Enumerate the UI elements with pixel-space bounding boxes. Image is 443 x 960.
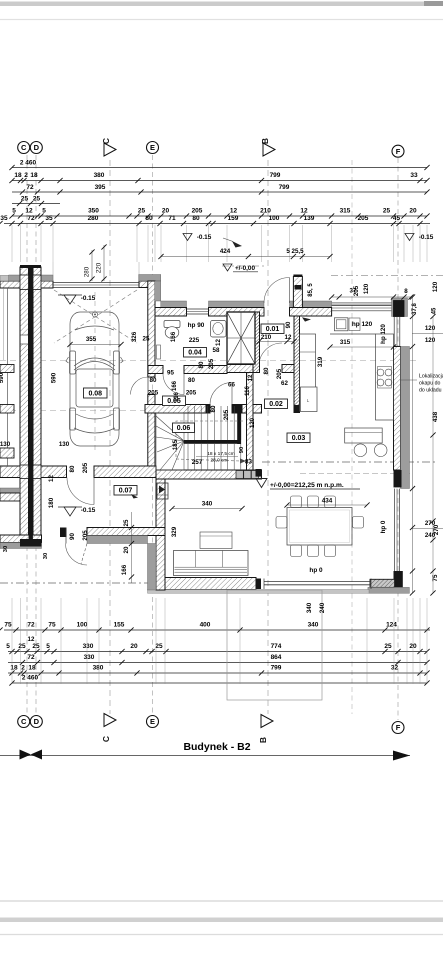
svg-text:774: 774 [271, 643, 282, 650]
page separator top [0, 2, 443, 7]
party wall black core [29, 267, 33, 540]
svg-text:80: 80 [150, 377, 157, 384]
stair wall end block [256, 469, 262, 477]
svg-text:95: 95 [167, 370, 174, 377]
svg-text:120: 120 [363, 283, 370, 294]
svg-text:2 460: 2 460 [22, 675, 39, 682]
level marker -0.15 top right [405, 234, 414, 241]
svg-text:25: 25 [18, 643, 26, 650]
svg-text:45: 45 [432, 307, 438, 314]
svg-text:5: 5 [6, 643, 10, 650]
level marker -0.15 top middle [183, 234, 192, 241]
svg-text:B: B [260, 138, 270, 144]
svg-text:159: 159 [228, 215, 239, 222]
right wall window upper hp120 [393, 317, 395, 347]
svg-text:E: E [150, 717, 155, 726]
garage interior dimensions [70, 344, 121, 346]
level marker -0.15 hall [64, 507, 76, 516]
svg-text:5: 5 [12, 208, 16, 215]
svg-text:180: 180 [48, 497, 55, 508]
svg-text:30: 30 [3, 546, 9, 552]
svg-text:185: 185 [172, 439, 179, 450]
dining chair left [276, 517, 287, 529]
garage bottom wall [0, 466, 67, 478]
grid bubble C bottom [18, 716, 30, 728]
svg-text:25: 25 [143, 336, 150, 343]
stair door jambs [206, 405, 211, 414]
svg-text:434: 434 [322, 498, 333, 505]
stairwell bottom wall [156, 470, 262, 479]
dining chair right [353, 517, 364, 529]
svg-text:205: 205 [276, 368, 283, 379]
svg-text:205: 205 [208, 358, 215, 369]
dimension entry recess 424 and 5-25-5 [161, 256, 330, 258]
svg-text:380: 380 [93, 665, 104, 672]
room label 0.01 [261, 324, 284, 334]
svg-text:5 25,5: 5 25,5 [286, 248, 304, 255]
entrance door arc [66, 544, 88, 566]
svg-text:58: 58 [213, 347, 220, 354]
svg-text:799: 799 [271, 665, 282, 672]
svg-text:C: C [21, 143, 27, 152]
living room left wall [156, 470, 165, 590]
svg-text:100: 100 [269, 215, 280, 222]
svg-text:799: 799 [279, 184, 290, 191]
toilet [164, 321, 180, 328]
svg-text:83: 83 [245, 459, 252, 466]
bar stools [354, 444, 367, 457]
svg-text:25: 25 [32, 643, 40, 650]
svg-text:75: 75 [48, 622, 56, 629]
stair railing [184, 440, 241, 444]
garage drain symbol [92, 312, 97, 317]
svg-text:18: 18 [14, 172, 22, 179]
svg-text:45: 45 [393, 215, 401, 222]
svg-text:28,0 cm: 28,0 cm [210, 458, 227, 464]
garage door swing dashed X [54, 290, 137, 343]
svg-text:395: 395 [95, 184, 106, 191]
svg-text:18: 18 [28, 665, 36, 672]
kitchen top window [332, 302, 394, 305]
svg-text:35: 35 [0, 215, 8, 222]
svg-text:100: 100 [77, 622, 88, 629]
svg-text:120: 120 [250, 417, 256, 428]
svg-text:hp 120: hp 120 [380, 324, 387, 344]
svg-text:329: 329 [171, 526, 178, 537]
grid bubble D bottom [30, 716, 42, 728]
roof overhang dashed line right [262, 461, 437, 463]
svg-text:0.04: 0.04 [188, 349, 202, 356]
level marker -0.15 garage [64, 295, 76, 304]
svg-text:319: 319 [317, 356, 324, 367]
car in garage [66, 312, 123, 446]
grid bubble C top [18, 142, 30, 154]
svg-text:20: 20 [123, 546, 130, 553]
svg-text:380: 380 [94, 172, 105, 179]
section flag B top [263, 143, 275, 156]
svg-text:Budynek - B2: Budynek - B2 [183, 741, 250, 753]
svg-text:okapu do: okapu do [419, 381, 440, 387]
insulation right of garage wall at entry recess [155, 281, 161, 301]
garage centre dashed line [94, 292, 96, 452]
svg-text:20: 20 [409, 208, 417, 215]
svg-text:B: B [258, 737, 268, 743]
masonry blocks on stair wall [236, 471, 243, 479]
svg-text:205: 205 [192, 208, 203, 215]
page separator bottom [0, 900, 443, 902]
stairs 0.06 [156, 413, 184, 470]
svg-text:hp 90: hp 90 [188, 322, 205, 329]
room label 0.05 [163, 396, 186, 406]
svg-text:20: 20 [409, 643, 417, 650]
svg-text:257: 257 [192, 459, 203, 466]
top dimension row 18-2-18-380-799-33 [12, 180, 427, 182]
svg-text:C: C [101, 736, 111, 742]
corner pillar top right [392, 298, 408, 317]
svg-text:120: 120 [432, 281, 439, 292]
svg-text:12: 12 [230, 208, 238, 215]
stairwell top wall [145, 405, 210, 414]
svg-text:280: 280 [84, 266, 91, 277]
svg-text:Lokalizacja: Lokalizacja [419, 374, 443, 380]
porch insulation along living left wall [148, 544, 157, 591]
dining table [287, 508, 352, 546]
svg-text:340: 340 [308, 622, 319, 629]
bottom right corner block [394, 571, 403, 587]
entrance door jamb [60, 528, 67, 538]
svg-text:71: 71 [168, 215, 176, 222]
washbasin [211, 321, 227, 338]
party wall columns over crossings [20, 275, 29, 290]
room 0.01 south wall stub [282, 365, 294, 373]
svg-text:F: F [396, 147, 401, 156]
kitchen tall cabinets and fridge [300, 334, 316, 411]
grid axis D [35, 155, 37, 714]
svg-text:864: 864 [271, 654, 282, 661]
bathroom bottom wall [148, 366, 163, 374]
top dimension row 2460 [12, 167, 427, 169]
garage top wall insulation [9, 275, 53, 281]
svg-text:270: 270 [433, 524, 440, 535]
svg-text:D: D [34, 143, 40, 152]
svg-text:12: 12 [248, 374, 254, 381]
svg-text:+/-0,00: +/-0,00 [235, 265, 256, 272]
garage door [53, 282, 139, 284]
svg-text:hp 0: hp 0 [309, 567, 323, 574]
svg-text:210: 210 [261, 334, 272, 341]
door garage to hall 0.07 [67, 478, 94, 505]
svg-text:25: 25 [155, 643, 163, 650]
svg-text:18: 18 [30, 172, 38, 179]
svg-text:124: 124 [386, 622, 397, 629]
svg-text:33: 33 [410, 172, 418, 179]
door to room 0.01 [259, 343, 282, 366]
svg-text:32: 32 [391, 665, 399, 672]
svg-text:205: 205 [358, 215, 369, 222]
extension lines bottom [11, 598, 13, 684]
grid axis E [152, 155, 154, 714]
level marker +/-0.00 entry [223, 264, 232, 271]
section flag B bottom [261, 715, 273, 728]
left unit entrance wall [0, 535, 42, 543]
wall between rooms 0.01-0.02 and living room [294, 316, 300, 413]
bottom dimension row 75-72-75-100-155-400-340-124 [4, 629, 430, 631]
svg-text:hp 120: hp 120 [352, 321, 373, 328]
door in top wall to garden [263, 308, 265, 317]
svg-text:210: 210 [260, 208, 271, 215]
svg-text:80: 80 [192, 215, 200, 222]
svg-text:116: 116 [174, 392, 180, 402]
party wall bottom cap [20, 539, 42, 547]
svg-text:225: 225 [189, 337, 200, 344]
entrance wall [87, 528, 165, 536]
dining chairs top row [291, 496, 302, 508]
svg-text:-0.15: -0.15 [197, 234, 212, 241]
svg-text:-0.15: -0.15 [81, 507, 96, 514]
ventilation shaft with cross [227, 312, 255, 364]
svg-text:35: 35 [45, 215, 53, 222]
svg-text:90: 90 [69, 533, 76, 540]
svg-text:799: 799 [270, 172, 281, 179]
exterior wall stub above top wall [293, 277, 302, 308]
svg-text:116: 116 [245, 386, 251, 396]
right wall window lower hp0 [393, 489, 395, 571]
svg-text:340: 340 [202, 501, 213, 508]
svg-text:72: 72 [27, 654, 35, 661]
grid axis helper [351, 160, 353, 714]
bottom dimension row 18-2-18-380-799-32 [8, 672, 427, 674]
svg-text:80: 80 [263, 367, 270, 374]
svg-text:80: 80 [69, 465, 76, 472]
room label 0.02 [265, 399, 288, 409]
svg-text:240: 240 [319, 602, 326, 613]
title underline with arrows [0, 755, 410, 757]
svg-text:280: 280 [88, 215, 99, 222]
dining chairs bottom row [291, 545, 302, 557]
svg-text:400: 400 [200, 622, 211, 629]
svg-text:25: 25 [21, 196, 29, 203]
level marker +/-0.00 = 212.25 living room [256, 479, 267, 488]
party wall niche [21, 335, 28, 344]
svg-text:205: 205 [353, 285, 360, 296]
svg-text:12: 12 [285, 334, 292, 341]
bathroom window hp90 [187, 308, 209, 310]
bottom wall insulation strip [148, 590, 370, 594]
right wall black block [394, 470, 402, 487]
bottom dimension row 2460 [12, 682, 427, 684]
section line B [267, 160, 269, 714]
svg-text:37,8: 37,8 [412, 303, 418, 315]
section line C [109, 160, 111, 714]
top dimension row 25-25 [12, 203, 60, 205]
bottom dimension row 5-25-25-5-330-20-25-774-25-20 [8, 651, 427, 653]
svg-text:130: 130 [59, 441, 70, 448]
extension lines top [11, 225, 13, 262]
grid bubble E bottom [147, 716, 159, 728]
svg-text:72: 72 [26, 184, 34, 191]
svg-text:0.01: 0.01 [266, 326, 280, 333]
svg-text:330: 330 [83, 643, 94, 650]
coffee table [200, 532, 232, 549]
svg-text:do ukladu: do ukladu [419, 388, 442, 394]
left unit fragment walls at image edge [7, 288, 9, 466]
grid bubble D top [30, 142, 42, 154]
svg-text:139: 139 [304, 215, 315, 222]
svg-text:166: 166 [170, 331, 177, 342]
svg-text:12: 12 [28, 636, 35, 643]
svg-text:166: 166 [172, 380, 178, 391]
svg-text:0.03: 0.03 [292, 435, 306, 442]
svg-text:E: E [150, 143, 155, 152]
party wall between units [20, 267, 29, 547]
svg-text:66: 66 [228, 382, 235, 389]
kitchen counter right with cooktop [376, 334, 394, 420]
electrical cabinet in hall [157, 483, 168, 499]
svg-text:12: 12 [300, 208, 308, 215]
bathroom door to corridor [163, 374, 184, 395]
svg-text:166: 166 [121, 564, 128, 575]
svg-text:75: 75 [4, 622, 12, 629]
top dimension row 5-12-5-350-25-20-205-12-210-12-315-25-20 [12, 215, 427, 217]
wall between corridor and room 0.01 [253, 312, 260, 373]
svg-text:220: 220 [96, 262, 103, 273]
svg-text:315: 315 [340, 208, 351, 215]
svg-text:590: 590 [51, 372, 58, 383]
svg-text:20: 20 [162, 208, 170, 215]
svg-text:2: 2 [24, 172, 28, 179]
svg-text:-0.15: -0.15 [81, 295, 96, 302]
svg-text:205: 205 [186, 390, 197, 397]
svg-text:25: 25 [33, 196, 41, 203]
svg-text:0.06: 0.06 [177, 425, 191, 432]
garage top exterior wall [0, 281, 53, 288]
grid bubble E top [147, 142, 159, 154]
svg-text:80: 80 [210, 405, 217, 412]
svg-text:20: 20 [130, 643, 138, 650]
svg-text:25: 25 [384, 643, 392, 650]
svg-text:120: 120 [425, 325, 436, 332]
svg-text:340: 340 [306, 602, 313, 613]
small direction arrows [232, 241, 242, 248]
svg-text:12: 12 [25, 208, 33, 215]
svg-text:25: 25 [123, 519, 130, 526]
party wall top cap [20, 265, 41, 268]
svg-text:90: 90 [286, 321, 292, 328]
svg-text:350: 350 [88, 208, 99, 215]
svg-text:5: 5 [42, 208, 46, 215]
svg-text:80: 80 [145, 215, 153, 222]
svg-text:205: 205 [148, 390, 159, 397]
room label 0.03 [287, 433, 310, 443]
room label 0.07 [114, 486, 137, 496]
living room bottom wall [165, 578, 256, 590]
svg-text:C: C [101, 138, 111, 144]
svg-text:155: 155 [114, 622, 125, 629]
room label 0.06 [173, 423, 195, 433]
roof overhang dashed line bottom-left [0, 582, 222, 584]
right exterior wall [394, 347, 401, 471]
grid bubble F top [392, 145, 404, 157]
stair walking line dashed [176, 421, 243, 461]
svg-text:72: 72 [27, 622, 35, 629]
svg-text:F: F [396, 723, 401, 732]
svg-text:424: 424 [220, 248, 231, 255]
svg-text:326: 326 [131, 331, 138, 342]
top dimension row 35-72-35-280-80-71-80-159-100-139-205-45 [4, 223, 430, 225]
svg-text:80: 80 [198, 361, 205, 368]
room label 0.08 [84, 388, 108, 398]
svg-text:130: 130 [0, 441, 11, 448]
svg-text:0.08: 0.08 [88, 390, 102, 397]
grid axis C [26, 155, 28, 714]
wall right of stairs [247, 373, 254, 471]
svg-text:-0.15: -0.15 [419, 234, 434, 241]
top dimension row 72-395-799 [12, 191, 427, 193]
svg-text:315: 315 [340, 339, 351, 346]
entry recess top wall with insulation [161, 301, 187, 308]
svg-text:12: 12 [215, 339, 222, 346]
terrace outline below living room [227, 590, 322, 700]
door garage to corridor 0.05 [131, 377, 149, 395]
svg-text:90: 90 [239, 447, 245, 453]
living room south glass wall hp0 [264, 581, 371, 583]
svg-text:205: 205 [82, 462, 89, 473]
svg-text:25: 25 [383, 208, 391, 215]
svg-text:5: 5 [46, 643, 50, 650]
svg-text:8: 8 [404, 288, 408, 295]
room label 0.04 [184, 348, 207, 358]
svg-text:D: D [34, 717, 40, 726]
grid axis F [397, 158, 399, 720]
dimension garage door 280-220 [91, 250, 93, 281]
svg-text:2: 2 [21, 665, 25, 672]
stair door arc [210, 383, 232, 405]
horizontal grid dashed lines [0, 360, 418, 362]
svg-text:62: 62 [281, 380, 288, 387]
svg-text:30: 30 [43, 553, 49, 559]
roof dash at entry top [222, 265, 265, 267]
wall between garage and bathroom-hall [148, 281, 155, 377]
kitchen island [345, 428, 383, 443]
svg-text:120: 120 [425, 337, 436, 344]
svg-text:25: 25 [138, 208, 146, 215]
svg-text:+/-0,00=212,25 m n.p.m.: +/-0,00=212,25 m n.p.m. [270, 482, 344, 489]
bathroom radiator [157, 345, 161, 359]
svg-text:0.02: 0.02 [269, 401, 283, 408]
kitchen counter top with sink [330, 333, 376, 335]
svg-text:85, 5: 85, 5 [308, 283, 314, 297]
svg-text:80: 80 [188, 377, 195, 384]
svg-text:hp 0: hp 0 [380, 520, 387, 533]
section flag C bottom [104, 714, 116, 727]
svg-text:72: 72 [27, 215, 35, 222]
svg-text:205: 205 [223, 409, 230, 420]
sofa [174, 551, 249, 576]
section flag C top [104, 143, 116, 156]
dimension kitchen window 37-8 [332, 296, 411, 298]
shaft wall below [227, 365, 259, 373]
bottom dimension row 72-330-864 [8, 662, 427, 664]
svg-text:18: 18 [10, 665, 18, 672]
svg-text:330: 330 [84, 654, 95, 661]
svg-text:0.07: 0.07 [119, 487, 133, 494]
svg-text:590: 590 [0, 372, 5, 383]
svg-text:205: 205 [82, 530, 89, 541]
grid bubble F bottom [392, 722, 404, 734]
svg-text:C: C [21, 717, 27, 726]
svg-text:12: 12 [48, 475, 55, 482]
svg-text:355: 355 [86, 336, 97, 343]
